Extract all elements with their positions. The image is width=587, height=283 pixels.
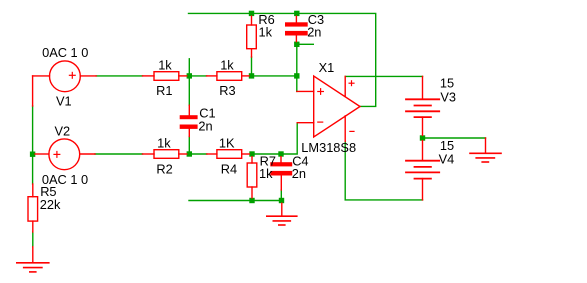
svg-text:1k: 1k bbox=[157, 136, 171, 151]
svg-text:V2: V2 bbox=[55, 124, 71, 139]
capacitor C4 bbox=[270, 162, 292, 175]
junction node B (R2/R4/C1) bbox=[187, 151, 192, 156]
svg-text:2n: 2n bbox=[307, 25, 321, 40]
wire C1 to node B bbox=[188, 137, 190, 152]
resistor R7 bbox=[247, 157, 257, 198]
svg-text:0AC 1 0: 0AC 1 0 bbox=[42, 45, 88, 60]
capacitor C1 bbox=[180, 115, 198, 129]
junction top wire C3 bbox=[294, 11, 299, 16]
junction battery midpoint bbox=[420, 135, 425, 140]
svg-text:LM318S8: LM318S8 bbox=[301, 140, 356, 155]
wire node A to R3 bbox=[192, 75, 207, 77]
ground middle bbox=[267, 203, 297, 225]
svg-text:X1: X1 bbox=[319, 60, 335, 75]
wire bottom ground rail bbox=[189, 200, 282, 202]
voltage source V2 bbox=[35, 139, 95, 170]
resistor R2 bbox=[143, 150, 187, 159]
wire stub right of C3 bottom node bbox=[299, 43, 313, 45]
svg-text:V1: V1 bbox=[56, 93, 72, 108]
junction node A (R1/R3/C1) bbox=[187, 73, 192, 78]
wire top feedback rail bbox=[189, 13, 376, 106]
svg-text:V4: V4 bbox=[439, 151, 455, 166]
wire left bus V2 to R5 bbox=[32, 157, 34, 184]
wire R6 bottom bbox=[251, 57, 253, 73]
wire V2 to R2 bbox=[95, 153, 143, 155]
wire V+ power rail bbox=[345, 75, 422, 77]
junction R4/R7 bbox=[249, 151, 254, 156]
svg-text:1k: 1k bbox=[158, 58, 172, 73]
resistor R6 bbox=[247, 16, 257, 57]
svg-text:15: 15 bbox=[440, 75, 454, 90]
svg-text:1k: 1k bbox=[259, 25, 273, 40]
svg-text:2n: 2n bbox=[292, 166, 306, 181]
ground right bbox=[470, 138, 501, 162]
junction C4 top bbox=[278, 151, 283, 156]
junction C3 bottom bbox=[294, 42, 299, 47]
junction R3/R6 bbox=[249, 73, 254, 78]
op-amp X1 bbox=[297, 76, 360, 141]
wire R3 to +input node bbox=[254, 75, 294, 77]
wire V- rail bbox=[345, 141, 422, 200]
ground left bbox=[17, 247, 49, 272]
wire V1 to R1 bbox=[96, 75, 142, 77]
resistor R1 bbox=[143, 72, 187, 81]
wire left bus V1 to V2 bbox=[32, 106, 34, 151]
junction top wire R6 bbox=[249, 11, 254, 16]
voltage source V1 bbox=[33, 61, 97, 106]
svg-text:R3: R3 bbox=[219, 83, 235, 98]
svg-text:R4: R4 bbox=[221, 161, 237, 176]
wire C4 node to -input bbox=[284, 123, 297, 154]
svg-text:V3: V3 bbox=[440, 89, 456, 104]
wire C4 bottom bbox=[280, 190, 282, 198]
resistor R3 bbox=[207, 72, 249, 81]
svg-text:1K: 1K bbox=[219, 136, 235, 151]
wire R4 node to C4 node bbox=[255, 153, 278, 155]
svg-text:22k: 22k bbox=[40, 197, 61, 212]
svg-text:1k: 1k bbox=[259, 166, 273, 181]
svg-text:1k: 1k bbox=[220, 58, 234, 73]
resistor R4 bbox=[207, 150, 250, 159]
junction left bus V2 bbox=[30, 152, 35, 157]
resistor R5 bbox=[28, 184, 38, 232]
wire node A to C1 bbox=[188, 79, 190, 106]
svg-text:R2: R2 bbox=[156, 161, 172, 176]
junction C4 bottom / ground bbox=[279, 198, 284, 203]
wire stub above node A bbox=[188, 59, 190, 73]
svg-text:2n: 2n bbox=[198, 119, 212, 134]
svg-text:R1: R1 bbox=[156, 83, 172, 98]
wire node B to R4 bbox=[192, 153, 207, 155]
wire battery midpoint to ground bbox=[425, 137, 486, 139]
wire R5 to ground bbox=[32, 232, 34, 247]
battery V3 bbox=[406, 76, 439, 135]
junction +input node bbox=[294, 73, 299, 78]
battery V4 bbox=[406, 141, 439, 200]
wire C3 bottom to +input bbox=[296, 47, 298, 92]
capacitor C3 bbox=[285, 22, 308, 35]
junction R7 bottom bbox=[249, 198, 254, 203]
